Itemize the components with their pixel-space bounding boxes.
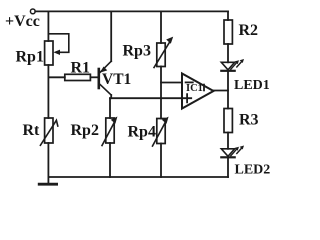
svg-text:R2: R2 xyxy=(239,22,259,39)
wire Rp2 bottom to ground rail xyxy=(109,143,111,177)
wire Rp2 top lead xyxy=(109,98,111,118)
svg-text:Rp4: Rp4 xyxy=(128,124,156,141)
LED2 diode triangle xyxy=(221,149,234,157)
LED2 cathode bar xyxy=(221,156,234,158)
wire VT1 collector down to + input wire xyxy=(110,95,112,98)
transistor VT1 emitter (arrow into base, PNP) xyxy=(100,61,111,72)
wire Rp1 bottom to Rt top (through R1 junction) xyxy=(47,65,49,118)
potentiometer Rp3 body xyxy=(157,43,165,67)
thermistor Rt body xyxy=(45,118,53,143)
op-amp minus sign xyxy=(186,81,193,83)
svg-text:VT1: VT1 xyxy=(102,71,131,88)
wire Rp4 bottom to ground rail xyxy=(160,144,162,178)
resistor R1 body xyxy=(65,74,91,80)
wire R2 to LED1 anode xyxy=(227,44,229,62)
op-amp IC1 triangle xyxy=(182,74,214,109)
wire LED1 cathode to output node xyxy=(227,71,229,109)
wire LED2 cathode to ground rail xyxy=(227,157,229,177)
svg-text:+Vcc: +Vcc xyxy=(5,13,40,30)
wire Rp3 top lead from rail xyxy=(160,11,162,43)
wire collector node to op-amp + input xyxy=(110,97,182,99)
wire Rp3 bottom to Rp4 top (reference node) xyxy=(160,67,162,119)
wire base lead left segment xyxy=(48,76,64,78)
wire top Vcc rail xyxy=(35,10,228,12)
resistor R2 body xyxy=(224,20,232,44)
wire VT1 emitter to Vcc rail xyxy=(110,11,112,61)
wire Vcc rail corner down to R2 xyxy=(227,11,229,20)
wire R3 to LED2 anode xyxy=(227,133,229,149)
svg-text:LED2: LED2 xyxy=(235,162,271,177)
potentiometer Rp3 arrow xyxy=(154,42,170,68)
wire left branch from rail to Rp1 top xyxy=(47,11,49,41)
op-amp label tick xyxy=(203,85,205,91)
svg-text:R3: R3 xyxy=(239,112,259,129)
op-amp plus sign xyxy=(183,94,191,102)
svg-text:R1: R1 xyxy=(71,59,91,76)
LED1 diode triangle xyxy=(221,62,234,70)
thermistor Rt diagonal xyxy=(40,120,57,145)
potentiometer Rp2 arrow xyxy=(102,122,115,146)
transistor VT1 base bar xyxy=(98,69,101,88)
potentiometer Rp4 body xyxy=(157,119,165,144)
svg-text:Rt: Rt xyxy=(23,122,41,139)
svg-text:Rp1: Rp1 xyxy=(16,48,44,65)
LED2 emission arrows xyxy=(231,149,237,156)
potentiometer Rp4 arrow xyxy=(153,122,166,146)
ground symbol xyxy=(47,177,49,184)
transistor VT1 collector lead xyxy=(100,85,111,95)
wire Rt bottom to ground rail xyxy=(47,143,49,177)
svg-text:Rp3: Rp3 xyxy=(123,43,151,60)
svg-text:Rp2: Rp2 xyxy=(71,122,99,139)
node +Vcc terminal circle xyxy=(30,9,35,14)
svg-text:LED1: LED1 xyxy=(234,78,270,93)
wire node to op-amp - input xyxy=(161,82,182,84)
potentiometer Rp1 body xyxy=(45,41,53,65)
LED1 cathode bar xyxy=(221,70,234,72)
LED1 emission arrows xyxy=(231,63,237,69)
wire op-amp output xyxy=(214,90,229,92)
potentiometer Rp1 wiper loop with arrow xyxy=(48,34,68,53)
wire bottom ground rail xyxy=(48,176,228,178)
potentiometer Rp2 body xyxy=(106,118,114,143)
svg-text:IC1: IC1 xyxy=(186,83,203,94)
wire R1 to VT1 base xyxy=(90,76,97,78)
resistor R3 body xyxy=(224,109,232,133)
